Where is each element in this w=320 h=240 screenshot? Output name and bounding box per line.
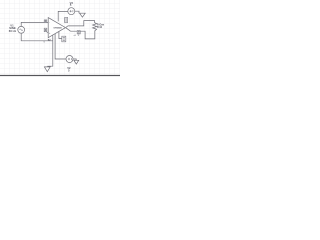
svg-text:OPA548: OPA548: [53, 26, 62, 29]
wire op-amp V- pin down to V2: [55, 34, 66, 59]
ground flag near V2: [74, 60, 79, 64]
wire feedback lower fork from output: [66, 28, 78, 31]
net flag on inverting input: [44, 20, 47, 23]
sheet bottom border: [0, 75, 120, 76]
wire op-amp pin 3 to sense box: [59, 32, 62, 39]
wire op-amp V+ pin up to V3: [58, 11, 68, 21]
wire V3 plus to ground flag: [75, 11, 79, 13]
svg-text:x1: x1: [74, 35, 76, 37]
voltage source V1: [18, 26, 25, 33]
svg-text:2: 2: [78, 35, 79, 37]
voltage source V3: [68, 8, 75, 15]
svg-text:60 Hz: 60 Hz: [9, 29, 17, 33]
voltage source V2: [66, 56, 73, 63]
label on feedback wire: [74, 35, 76, 37]
wire ground net down to ground symbol: [47, 35, 53, 66]
svg-text:50 Ω: 50 Ω: [97, 26, 102, 29]
sense box component: [62, 36, 66, 42]
ground: [44, 67, 50, 72]
wire V2 plus to ground flag: [73, 59, 76, 60]
op-amp U1: [48, 18, 65, 38]
net flag on non-inverting input: [44, 28, 48, 32]
wire op-amp output to R1 top: [66, 21, 95, 28]
label R1 value: [97, 24, 105, 30]
wire V1 bottom to ground net: [21, 33, 53, 41]
label V3: [70, 1, 74, 7]
label V2: [67, 66, 71, 73]
label V1 value text: [9, 23, 17, 33]
ground flag near V3: [80, 13, 86, 17]
wire feedback to R1 bottom: [80, 31, 95, 39]
svg-text:-: -: [49, 22, 50, 25]
node label B2: [44, 39, 52, 43]
net flag above op-amp apex: [65, 17, 68, 22]
resistor R1: [93, 23, 97, 31]
wire V1 top to op-amp inverting input: [21, 22, 48, 26]
label under feedback flag: [78, 35, 79, 37]
net flag on feedback wire: [77, 31, 80, 34]
